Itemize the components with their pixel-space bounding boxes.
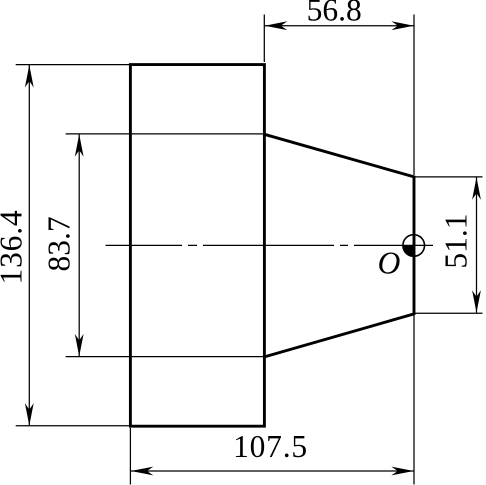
dimension 136.4 extension line bottom (16, 425, 129, 427)
center point O marker circle (403, 235, 425, 257)
dimension 136.4 extension line top (16, 64, 129, 66)
dimension 83.7 extension line bottom (shoulder line) (66, 356, 265, 358)
dimension 136.4 arrow top (25, 65, 34, 88)
svg-text:51.1: 51.1 (438, 213, 473, 268)
centerline (dash-dot axis) (106, 244, 434, 246)
dimension 107.5 arrow left (131, 467, 154, 476)
svg-text:136.4: 136.4 (0, 210, 28, 285)
dimension 51.1 extension line top (415, 176, 483, 178)
dimension 107.5 arrow right (391, 467, 414, 476)
dimension text 51.1 (rotated) (438, 213, 473, 268)
tapered cone outline (top slant, right face, bottom slant) (264, 134, 414, 357)
dimension 51.1 arrow bottom (472, 290, 481, 313)
dimension text 83.7 (rotated) (42, 216, 77, 271)
dimension text 56.8 (307, 0, 362, 28)
svg-text:107.5: 107.5 (233, 429, 308, 464)
dimension 83.7 dimension line (78, 134, 80, 356)
dimension text 136.4 (rotated) (0, 210, 28, 285)
dimension 136.4 arrow bottom (25, 403, 34, 426)
svg-text:56.8: 56.8 (307, 0, 362, 28)
dimension 51.1 dimension line (476, 177, 478, 313)
dimension 83.7 arrow top (75, 134, 84, 157)
dimension 107.5 extension line left (129, 428, 131, 485)
dimension 56.8 arrow right (391, 21, 414, 30)
dimension 83.7 arrow bottom (75, 334, 84, 357)
dimension text 107.5 (233, 429, 308, 464)
dimension 51.1 extension line bottom (415, 312, 483, 314)
svg-text:83.7: 83.7 (42, 216, 77, 271)
flange body rectangle (part outline) (130, 65, 264, 427)
dimension 107.5 dimension line (131, 470, 414, 472)
svg-text:O: O (378, 245, 401, 280)
dimension 51.1 arrow top (472, 177, 481, 200)
label O (origin point) (378, 245, 401, 280)
dimension 56.8 dimension line (265, 25, 414, 27)
dimension 83.7 extension line top (shoulder line) (66, 133, 265, 135)
dimension 107.5 extension line right (413, 316, 415, 485)
dimension 56.8 extension line left (top of rect right edge) (263, 15, 265, 63)
dimension 56.8 / 51.1 shared extension line right (x=414) (413, 15, 415, 176)
dimension 56.8 arrow left (265, 21, 288, 30)
dimension 136.4 dimension line (28, 65, 30, 426)
